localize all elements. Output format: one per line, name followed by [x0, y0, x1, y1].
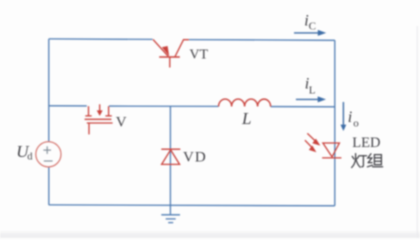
svg-text:V: V — [116, 114, 127, 130]
svg-text:VT: VT — [189, 47, 208, 62]
svg-text:i: i — [348, 109, 352, 126]
svg-text:d: d — [27, 152, 33, 163]
svg-text:L: L — [309, 85, 316, 97]
svg-text:LED: LED — [352, 135, 380, 151]
svg-text:o: o — [353, 117, 359, 129]
svg-text:C: C — [309, 21, 316, 33]
svg-text:L: L — [241, 109, 251, 128]
svg-text:VD: VD — [183, 150, 207, 166]
